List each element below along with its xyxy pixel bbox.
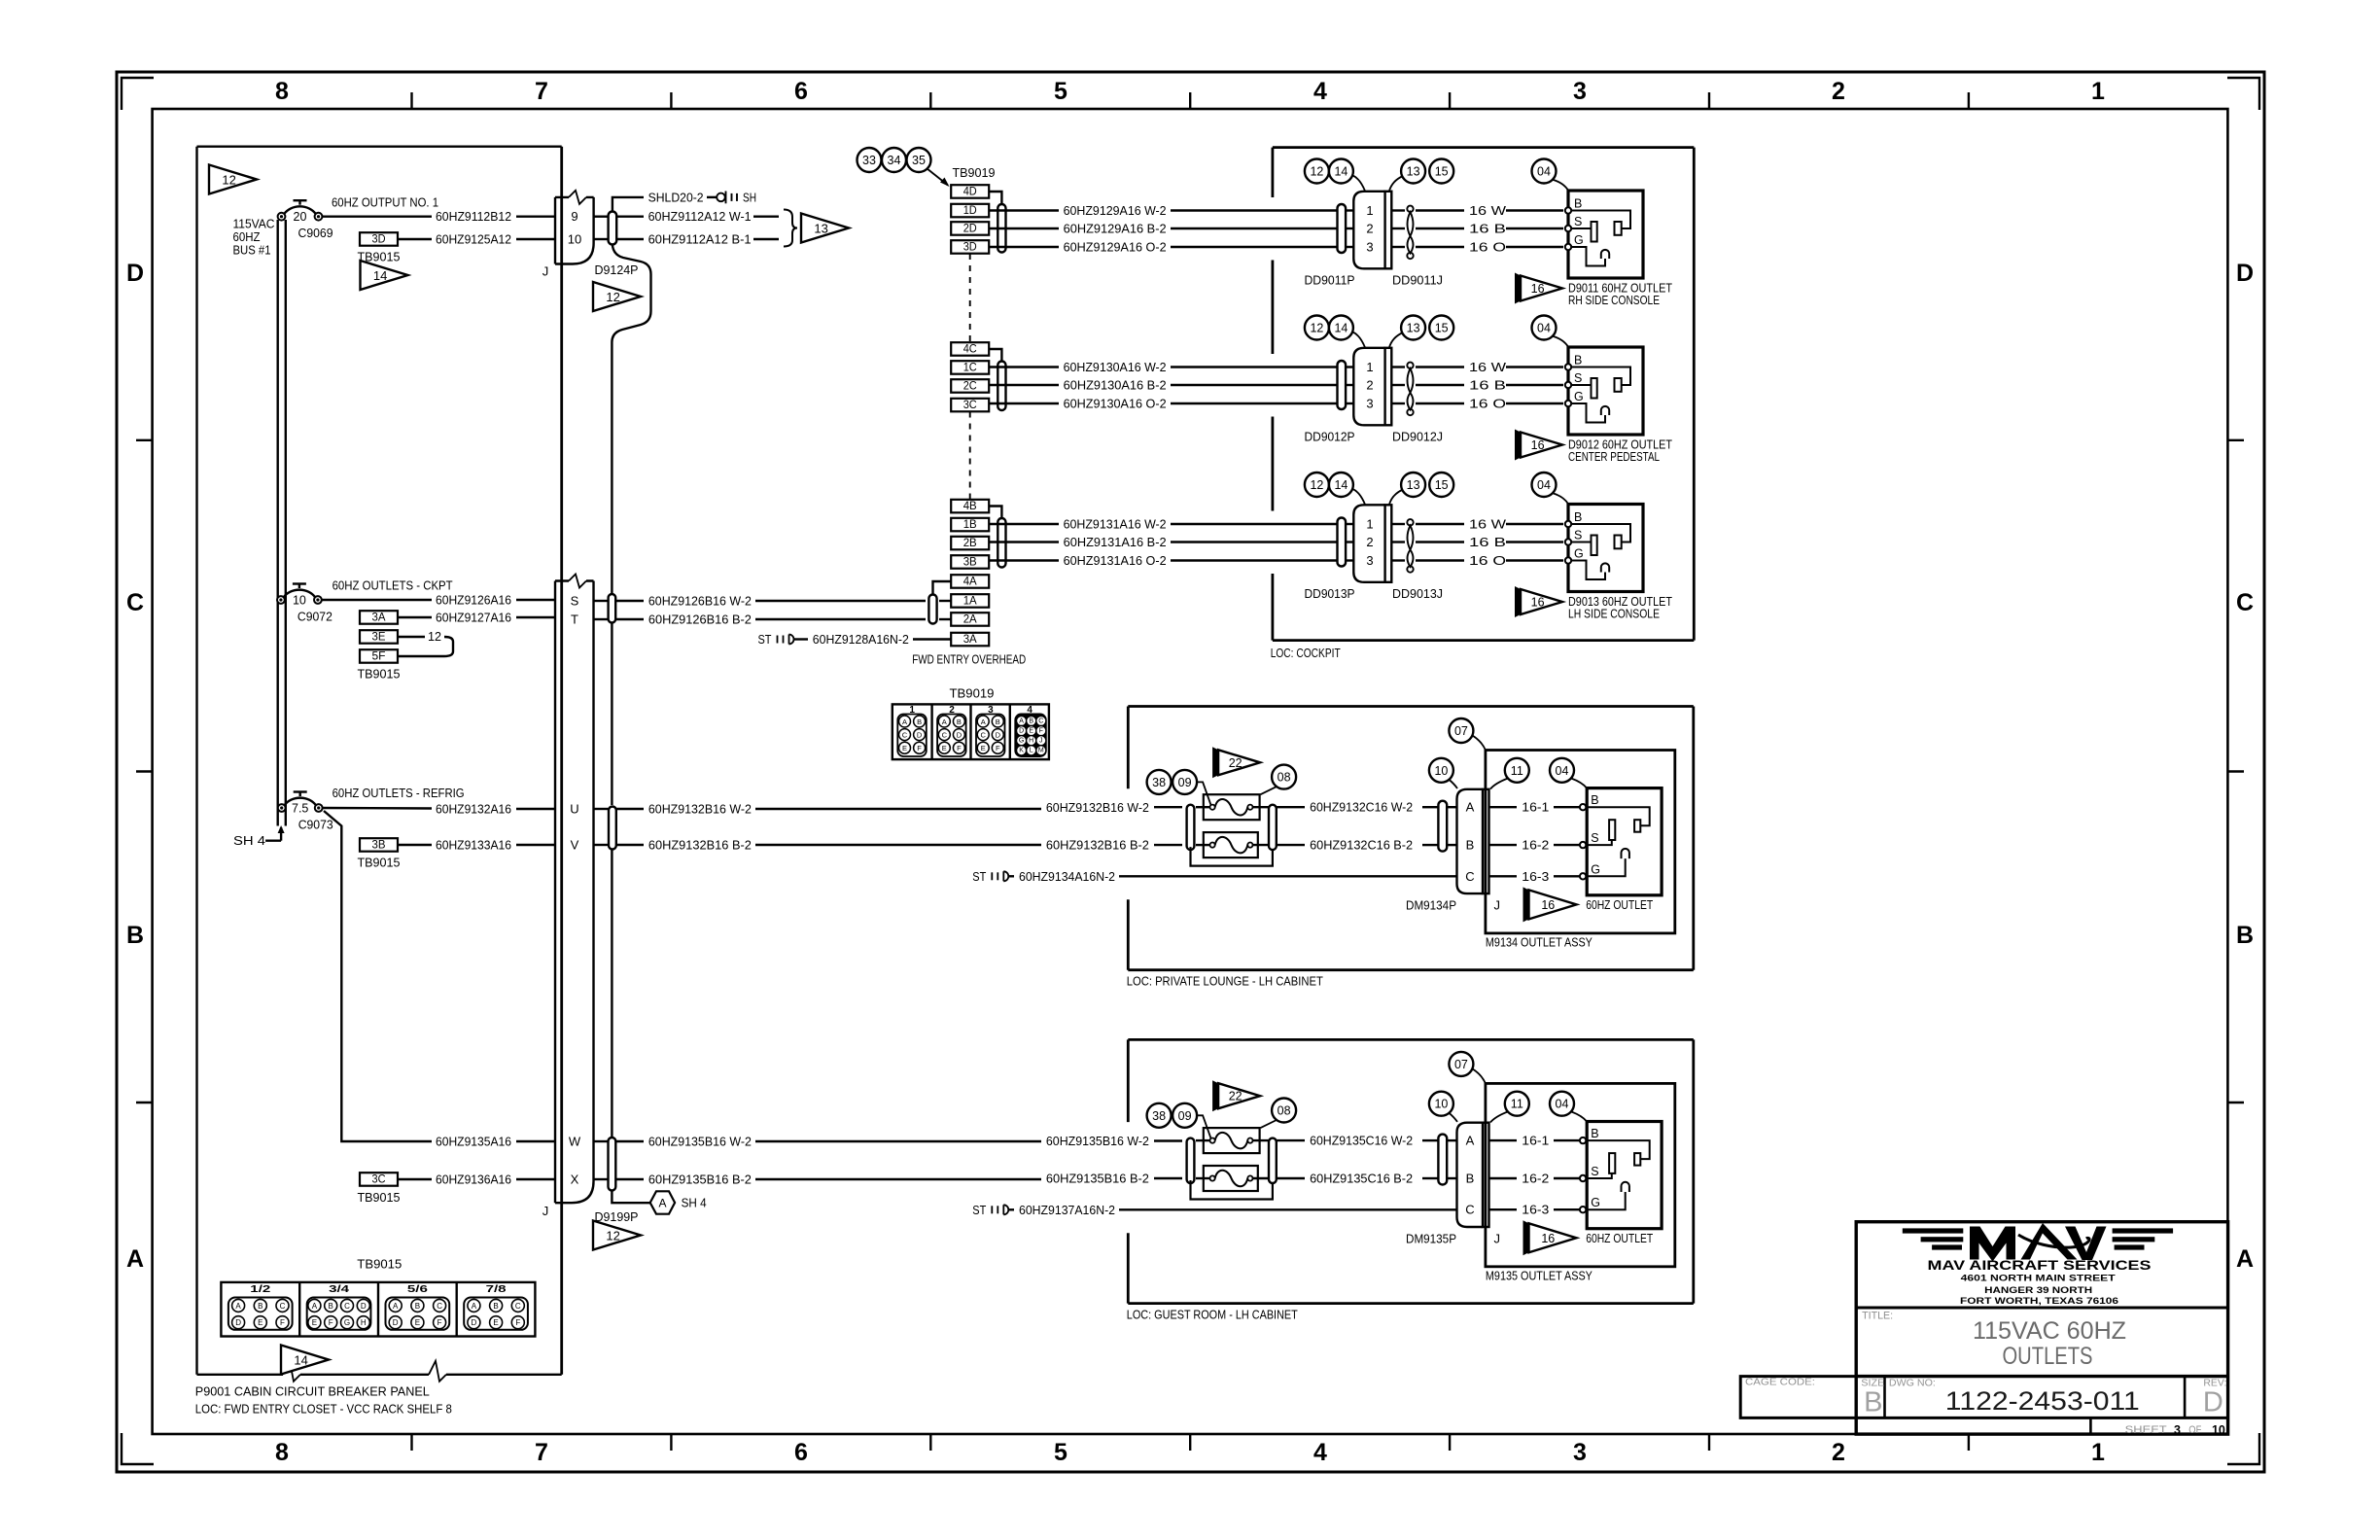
svg-text:04: 04 xyxy=(1556,764,1569,778)
svg-text:7: 7 xyxy=(535,78,548,105)
svg-text:A: A xyxy=(942,717,947,726)
circled notes 12 14 at DD900P xyxy=(1305,316,1365,348)
flag note 22 xyxy=(1212,747,1260,778)
flag note 16 and outlet label D9011 xyxy=(1515,273,1672,308)
svg-text:W: W xyxy=(569,1135,581,1149)
svg-text:E: E xyxy=(258,1318,262,1327)
svg-text:A: A xyxy=(981,717,986,726)
svg-text:3: 3 xyxy=(1366,397,1373,411)
svg-text:C: C xyxy=(280,1302,286,1311)
svg-text:G: G xyxy=(1591,862,1600,876)
splice before DD909P xyxy=(1338,204,1347,253)
svg-text:60HZ9135C16 B-2: 60HZ9135C16 B-2 xyxy=(1310,1172,1413,1186)
svg-text:7/8: 7/8 xyxy=(486,1284,507,1295)
svg-text:D: D xyxy=(2203,1387,2223,1418)
svg-text:BUS #1: BUS #1 xyxy=(233,243,271,258)
splice at TB9019 B group xyxy=(997,518,1005,568)
svg-text:1D: 1D xyxy=(963,205,977,217)
svg-text:J: J xyxy=(1493,1231,1500,1245)
svg-text:B: B xyxy=(415,1302,420,1311)
svg-text:12: 12 xyxy=(1310,322,1323,335)
wire 60HZ9132A16 from C9073 to pin U xyxy=(323,802,555,817)
wire 60HZ OUTLETS - CKPT label xyxy=(332,578,453,593)
flag note 12 at D9199P xyxy=(593,1221,641,1250)
svg-text:E: E xyxy=(942,744,947,752)
svg-text:SH 4: SH 4 xyxy=(682,1196,707,1210)
wire 16 B xyxy=(1391,222,1563,236)
svg-text:B: B xyxy=(1029,717,1033,724)
svg-text:13: 13 xyxy=(1407,165,1420,179)
svg-text:3/4: 3/4 xyxy=(329,1284,350,1295)
svg-text:B: B xyxy=(917,717,922,726)
svg-text:DM9135P: DM9135P xyxy=(1406,1231,1456,1245)
svg-text:60HZ9135A16: 60HZ9135A16 xyxy=(436,1135,511,1149)
svg-text:M: M xyxy=(1038,748,1044,754)
svg-text:12: 12 xyxy=(428,630,441,644)
svg-text:60HZ9125A12: 60HZ9125A12 xyxy=(436,232,511,247)
fuse F2 9135C16 B xyxy=(1204,1166,1258,1191)
svg-text:38: 38 xyxy=(1152,1109,1166,1123)
svg-text:C: C xyxy=(344,1302,350,1311)
circled note 10 at DM connector xyxy=(1429,758,1457,788)
svg-text:A: A xyxy=(312,1302,318,1311)
svg-text:60HZ9135C16 W-2: 60HZ9135C16 W-2 xyxy=(1310,1134,1413,1148)
svg-text:B: B xyxy=(493,1302,498,1311)
svg-text:S: S xyxy=(571,594,579,609)
svg-text:G: G xyxy=(1019,738,1024,745)
svg-text:60HZ9131A16 O-2: 60HZ9131A16 O-2 xyxy=(1064,553,1167,568)
wire 60HZ OUTLETS - REFRIG label xyxy=(332,786,465,800)
svg-text:2: 2 xyxy=(1832,1439,1845,1466)
svg-text:60HZ9129A16 O-2: 60HZ9129A16 O-2 xyxy=(1064,240,1167,255)
svg-text:C9072: C9072 xyxy=(297,611,332,624)
svg-text:TITLE:: TITLE: xyxy=(1862,1311,1893,1322)
shield wire 60HZ9128A16N-2 to TB9019 3A xyxy=(758,632,952,647)
twisted wires at DD9012J xyxy=(1407,363,1413,416)
circled note 04 at outlet D9013 xyxy=(1532,472,1569,504)
svg-text:D: D xyxy=(235,1318,241,1327)
cage code cell xyxy=(1740,1377,1856,1418)
flag note 16 and label 60HZ OUTLET xyxy=(1523,1220,1654,1255)
svg-text:1B: 1B xyxy=(963,519,977,531)
shield wire SHLD20-2 with shield termination SH xyxy=(612,190,756,211)
splice at TB9019 D group xyxy=(997,204,1005,253)
svg-text:16 W: 16 W xyxy=(1469,203,1507,218)
wire 16 O xyxy=(1391,240,1563,255)
wire 16-2 xyxy=(1489,1172,1581,1186)
svg-text:E: E xyxy=(902,744,907,752)
svg-text:D: D xyxy=(917,731,923,740)
svg-text:1: 1 xyxy=(1366,203,1373,218)
svg-text:16: 16 xyxy=(1531,438,1545,452)
svg-text:P9001 CABIN CIRCUIT BREAKER PA: P9001 CABIN CIRCUIT BREAKER PANEL xyxy=(195,1384,430,1399)
wire 60HZ9125A12 from tab 3D to pin 10 xyxy=(398,232,555,247)
outlet D9012 60HZ OUTLET xyxy=(1565,347,1643,435)
svg-text:HANGER 39 NORTH: HANGER 39 NORTH xyxy=(1984,1285,2092,1296)
svg-text:12: 12 xyxy=(222,173,235,188)
svg-text:3D: 3D xyxy=(963,242,977,254)
svg-text:15: 15 xyxy=(1435,165,1449,179)
circuit breaker C9073 7.5A xyxy=(278,792,333,832)
circled note 04 at outlet xyxy=(1550,1092,1587,1122)
terminal strip dashed continuation xyxy=(969,254,971,342)
svg-text:60HZ OUTLET: 60HZ OUTLET xyxy=(1586,897,1653,912)
svg-text:60HZ9112A12 B-1: 60HZ9112A12 B-1 xyxy=(648,232,752,247)
wire 60HZ9130A16 W-2 xyxy=(989,360,1353,374)
wire 16 B xyxy=(1391,378,1563,393)
svg-text:60HZ9126B16 W-2: 60HZ9126B16 W-2 xyxy=(648,594,752,609)
svg-text:5: 5 xyxy=(1054,78,1067,105)
circled notes 12 14 at DD901P xyxy=(1305,472,1365,505)
svg-text:7: 7 xyxy=(535,1439,548,1466)
terminal tab TB9015 3A xyxy=(360,611,398,624)
wire 60HZ9112B12 from C9069 to pin 9 xyxy=(323,209,556,224)
svg-text:15: 15 xyxy=(1435,478,1449,492)
wire 16-3 xyxy=(1489,1203,1581,1217)
fuse holder splice left xyxy=(1187,1138,1195,1183)
svg-text:E: E xyxy=(312,1318,317,1327)
svg-text:60HZ9133A16: 60HZ9133A16 xyxy=(436,838,511,853)
flag note 12 at D9124P xyxy=(593,282,641,311)
wire 60HZ9130A16 O-2 xyxy=(989,397,1353,411)
svg-text:3: 3 xyxy=(2174,1423,2181,1437)
svg-text:A: A xyxy=(235,1302,241,1311)
circled note 04 at outlet D9011 xyxy=(1532,159,1569,191)
svg-text:A: A xyxy=(126,1245,144,1273)
splice at TB9019 C group xyxy=(997,362,1005,411)
jumper wire 12 between 3E and 5F xyxy=(398,630,453,656)
wire 60HZ OUTPUT NO. 1 label xyxy=(332,195,438,210)
svg-text:4A: 4A xyxy=(963,577,977,588)
wire 60HZ9130A16 B-2 xyxy=(989,378,1353,393)
cabinet box LOC: GUEST ROOM - LH CABINET xyxy=(1128,1039,1694,1303)
svg-text:LOC: FWD ENTRY CLOSET - VCC RA: LOC: FWD ENTRY CLOSET - VCC RACK SHELF 8 xyxy=(195,1402,452,1417)
flag note 14 bottom xyxy=(281,1346,329,1375)
svg-text:G: G xyxy=(1591,1196,1600,1209)
svg-text:B: B xyxy=(1864,1387,1882,1418)
svg-text:S: S xyxy=(1574,371,1582,385)
circled note 11 at J xyxy=(1490,1092,1529,1123)
rev cell D xyxy=(2203,1377,2226,1417)
fuse F1 9135C16 W xyxy=(1204,1128,1260,1153)
svg-text:G: G xyxy=(1574,390,1584,403)
svg-text:10: 10 xyxy=(568,232,581,247)
svg-text:16-3: 16-3 xyxy=(1522,869,1549,884)
twisted wires at DD9011J xyxy=(1407,206,1413,260)
svg-text:2D: 2D xyxy=(963,224,977,235)
svg-text:F: F xyxy=(917,744,922,752)
svg-text:3: 3 xyxy=(1573,78,1587,105)
svg-text:16 B: 16 B xyxy=(1469,222,1506,236)
circled notes 33 34 35 with leader to TB9019 xyxy=(857,148,996,187)
wire 60HZ9112A12 W-1 xyxy=(594,209,779,224)
svg-text:3E: 3E xyxy=(372,632,386,644)
svg-text:H: H xyxy=(1029,738,1033,745)
svg-text:C: C xyxy=(902,731,908,740)
svg-text:F: F xyxy=(280,1318,285,1327)
svg-text:60HZ9132B16 W-2: 60HZ9132B16 W-2 xyxy=(1046,800,1149,815)
svg-text:J: J xyxy=(1493,897,1500,912)
svg-text:09: 09 xyxy=(1178,1109,1192,1123)
connector DD9011P / DD9011J xyxy=(1305,192,1444,288)
svg-text:J: J xyxy=(1039,738,1043,745)
outlet assembly inner box M9135 OUTLET ASSY xyxy=(1486,1083,1675,1282)
circled notes 38 09 xyxy=(1147,1103,1211,1138)
svg-text:07: 07 xyxy=(1454,1058,1468,1071)
svg-text:11: 11 xyxy=(1511,1098,1523,1111)
svg-text:16 W: 16 W xyxy=(1469,360,1507,374)
connector D9124P upper shell with pins 9 10 xyxy=(542,147,639,1375)
svg-text:60HZ9112B12: 60HZ9112B12 xyxy=(436,209,511,224)
flag note 22 xyxy=(1212,1080,1260,1111)
svg-text:C: C xyxy=(942,731,948,740)
svg-text:SH: SH xyxy=(743,190,756,204)
svg-text:D: D xyxy=(361,1302,367,1311)
svg-text:SHLD20-2: SHLD20-2 xyxy=(648,190,704,204)
svg-text:DWG NO:: DWG NO: xyxy=(1889,1377,1936,1388)
svg-text:DD9012P: DD9012P xyxy=(1305,430,1355,444)
splice on wires W-X xyxy=(609,1137,616,1191)
svg-text:F: F xyxy=(329,1318,333,1327)
svg-text:20: 20 xyxy=(294,210,307,224)
svg-text:B: B xyxy=(1591,793,1598,807)
shield wire 60HZ9137A16N-2 to DM9135P pin C xyxy=(972,1203,1456,1217)
svg-text:TB9019: TB9019 xyxy=(953,165,996,180)
circuit breaker C9072 10A xyxy=(277,584,332,624)
svg-text:G: G xyxy=(1574,547,1584,561)
svg-text:2: 2 xyxy=(1832,78,1845,105)
svg-text:B: B xyxy=(329,1302,333,1311)
circled note 04 at outlet D9012 xyxy=(1532,316,1569,347)
svg-text:15: 15 xyxy=(1435,322,1449,335)
svg-text:14: 14 xyxy=(1334,478,1347,492)
wire 16-1 xyxy=(1489,1134,1581,1148)
svg-text:C: C xyxy=(1465,869,1474,884)
svg-text:8: 8 xyxy=(275,1439,289,1466)
svg-text:C: C xyxy=(980,731,986,740)
svg-text:4D: 4D xyxy=(963,187,977,198)
outlet D9013 60HZ OUTLET xyxy=(1565,505,1643,592)
svg-text:13: 13 xyxy=(1407,478,1420,492)
svg-text:B: B xyxy=(2236,922,2254,949)
splice on wires S-T xyxy=(609,594,616,623)
svg-text:C: C xyxy=(1038,717,1043,724)
svg-text:3: 3 xyxy=(1573,1439,1587,1466)
svg-text:14: 14 xyxy=(1334,165,1347,179)
cable shield drain wire down to SH 4 xyxy=(612,245,650,1204)
wire 60HZ9126A16 from C9072 to pin S xyxy=(322,593,555,608)
svg-text:K: K xyxy=(1019,748,1024,754)
svg-text:60HZ9128A16N-2: 60HZ9128A16N-2 xyxy=(813,632,909,647)
fuse holder splice right and enclosure xyxy=(1191,1138,1277,1200)
wire 16 O xyxy=(1391,397,1563,411)
svg-text:13: 13 xyxy=(1407,322,1420,335)
svg-text:10: 10 xyxy=(2212,1423,2225,1437)
terminal tab TB9015 3B xyxy=(358,838,401,869)
wire 60HZ9132C16 W-2 to DM pin A xyxy=(1196,800,1457,815)
svg-text:12: 12 xyxy=(606,290,619,304)
svg-text:A: A xyxy=(393,1302,399,1311)
svg-text:M9135 OUTLET ASSY: M9135 OUTLET ASSY xyxy=(1486,1268,1592,1282)
svg-text:DD9012J: DD9012J xyxy=(1392,430,1443,444)
svg-text:10: 10 xyxy=(1434,764,1448,778)
wire 16 O xyxy=(1391,553,1563,568)
wire 60HZ9129A16 O-2 xyxy=(989,240,1353,255)
svg-text:L: L xyxy=(1030,748,1033,754)
svg-text:ST: ST xyxy=(972,870,986,884)
svg-text:60HZ9132A16: 60HZ9132A16 xyxy=(436,802,511,817)
svg-text:C: C xyxy=(2236,589,2254,616)
circled notes 13 15 at DD901J xyxy=(1389,472,1453,505)
P9001 cabin circuit breaker panel box xyxy=(197,147,562,1382)
svg-text:04: 04 xyxy=(1537,478,1551,492)
svg-text:2B: 2B xyxy=(963,538,977,549)
svg-text:T: T xyxy=(571,612,578,627)
wire 60HZ9131A16 W-2 xyxy=(989,517,1353,532)
svg-text:1A: 1A xyxy=(963,596,977,608)
P9001 panel label text xyxy=(195,1384,452,1417)
svg-text:16 O: 16 O xyxy=(1469,240,1506,255)
svg-text:C9073: C9073 xyxy=(298,819,333,832)
svg-text:B: B xyxy=(1574,510,1582,524)
splice on wires 9-10 xyxy=(609,212,617,245)
wire 60HZ9127A16 from tab 3A to pin T xyxy=(398,611,555,625)
svg-text:16: 16 xyxy=(1531,282,1545,296)
svg-text:3A: 3A xyxy=(963,634,977,646)
wire 60HZ9135B16 B-2 to guest room xyxy=(594,1172,1183,1187)
svg-text:FORT WORTH, TEXAS 76106: FORT WORTH, TEXAS 76106 xyxy=(1960,1296,2118,1307)
svg-text:60HZ9136A16: 60HZ9136A16 xyxy=(436,1172,511,1187)
svg-text:G: G xyxy=(344,1318,350,1327)
svg-text:22: 22 xyxy=(1229,756,1242,770)
svg-text:3: 3 xyxy=(1366,553,1373,568)
svg-text:X: X xyxy=(571,1172,579,1187)
svg-text:A: A xyxy=(472,1302,477,1311)
connector DD9013P / DD9013J xyxy=(1305,505,1444,601)
svg-text:6: 6 xyxy=(794,1439,808,1466)
svg-text:16-1: 16-1 xyxy=(1522,1134,1549,1148)
svg-text:E: E xyxy=(493,1318,498,1327)
svg-text:14: 14 xyxy=(1334,322,1347,335)
svg-text:V: V xyxy=(571,838,579,853)
svg-text:DM9134P: DM9134P xyxy=(1406,897,1456,912)
svg-text:DD9011P: DD9011P xyxy=(1305,273,1355,288)
svg-text:CENTER PEDESTAL: CENTER PEDESTAL xyxy=(1568,449,1660,464)
svg-text:F: F xyxy=(515,1318,520,1327)
svg-text:60HZ9130A16 O-2: 60HZ9130A16 O-2 xyxy=(1064,397,1167,411)
svg-text:H: H xyxy=(361,1318,367,1327)
svg-text:12: 12 xyxy=(1310,478,1323,492)
svg-text:10: 10 xyxy=(293,594,306,608)
svg-text:4B: 4B xyxy=(963,501,977,512)
svg-text:14: 14 xyxy=(294,1353,307,1368)
splice before DM connector xyxy=(1438,801,1447,852)
svg-text:08: 08 xyxy=(1277,1104,1291,1118)
svg-text:C: C xyxy=(126,589,144,616)
svg-text:07: 07 xyxy=(1454,724,1468,738)
svg-text:B: B xyxy=(1574,197,1582,211)
circled notes 13 15 at DD909J xyxy=(1389,159,1453,192)
svg-text:M9134 OUTLET ASSY: M9134 OUTLET ASSY xyxy=(1486,935,1592,950)
wire 60HZ9129A16 B-2 xyxy=(989,222,1353,236)
svg-text:8: 8 xyxy=(275,78,289,105)
terminal tabs TB9019 4D 1D 2D 3D xyxy=(951,185,1040,254)
svg-text:3C: 3C xyxy=(963,400,977,411)
svg-text:14: 14 xyxy=(373,268,387,283)
off sheet hexagon A SH 4 xyxy=(650,1191,707,1213)
svg-text:9: 9 xyxy=(571,209,577,224)
svg-text:3B: 3B xyxy=(372,840,386,852)
svg-text:F: F xyxy=(1039,728,1043,735)
svg-text:3B: 3B xyxy=(963,557,977,569)
svg-text:2A: 2A xyxy=(963,614,977,626)
svg-text:3C: 3C xyxy=(372,1174,386,1186)
wire 60HZ9129A16 W-2 xyxy=(989,203,1353,218)
svg-text:C: C xyxy=(437,1302,442,1311)
svg-text:LOC: PRIVATE LOUNGE - LH CABIN: LOC: PRIVATE LOUNGE - LH CABINET xyxy=(1127,974,1323,989)
wire 16 W xyxy=(1391,517,1563,532)
svg-text:60HZ9132C16 B-2: 60HZ9132C16 B-2 xyxy=(1310,838,1413,853)
location label LOC: COCKPIT xyxy=(1271,646,1341,660)
svg-text:3: 3 xyxy=(1366,240,1373,255)
circled notes 38 09 xyxy=(1147,770,1211,805)
svg-text:OUTLETS: OUTLETS xyxy=(2003,1343,2093,1370)
svg-text:5/6: 5/6 xyxy=(407,1284,429,1295)
svg-text:OF: OF xyxy=(2188,1424,2201,1436)
svg-text:D: D xyxy=(126,260,144,287)
location label FWD ENTRY OVERHEAD xyxy=(912,652,1026,667)
title text 115VAC 60HZ OUTLETS xyxy=(1862,1311,2126,1371)
svg-text:LOC: COCKPIT: LOC: COCKPIT xyxy=(1271,646,1341,660)
svg-text:U: U xyxy=(570,802,578,817)
svg-text:S: S xyxy=(1591,1165,1598,1178)
svg-text:E: E xyxy=(1029,728,1033,735)
svg-text:60HZ9135B16 W-2: 60HZ9135B16 W-2 xyxy=(648,1135,752,1149)
svg-text:1: 1 xyxy=(1366,517,1373,532)
svg-text:10: 10 xyxy=(1434,1098,1448,1111)
svg-text:2: 2 xyxy=(1366,535,1373,549)
flag note 16 and outlet label D9013 xyxy=(1515,586,1672,621)
svg-text:60HZ9129A16 W-2: 60HZ9129A16 W-2 xyxy=(1064,203,1167,218)
sheet 3 of 10 xyxy=(2125,1423,2225,1437)
circled notes 12 14 at DD909P xyxy=(1305,159,1365,192)
connector D9199P lower shell with pins S T U V W X xyxy=(542,575,639,1225)
svg-text:DD9013P: DD9013P xyxy=(1305,586,1355,601)
svg-text:60HZ9137A16N-2: 60HZ9137A16N-2 xyxy=(1019,1203,1115,1217)
svg-text:B: B xyxy=(1466,838,1475,853)
fuse F1 9132C16 W xyxy=(1204,794,1260,820)
terminal strip dashed continuation xyxy=(969,412,971,501)
svg-text:60HZ9135B16 B-2: 60HZ9135B16 B-2 xyxy=(1046,1172,1149,1186)
svg-text:11: 11 xyxy=(1511,764,1523,778)
svg-text:TB9015: TB9015 xyxy=(357,1257,402,1272)
svg-text:04: 04 xyxy=(1537,165,1551,179)
svg-text:09: 09 xyxy=(1178,776,1192,789)
svg-text:60HZ9132C16 W-2: 60HZ9132C16 W-2 xyxy=(1310,800,1413,815)
wire 16 W xyxy=(1391,203,1563,218)
svg-text:60HZ9135B16 B-2: 60HZ9135B16 B-2 xyxy=(648,1172,752,1187)
circled note 11 at J xyxy=(1490,758,1529,789)
svg-text:1/2: 1/2 xyxy=(250,1284,271,1295)
svg-text:D: D xyxy=(472,1318,477,1327)
svg-text:B: B xyxy=(957,717,962,726)
svg-text:1: 1 xyxy=(2091,78,2105,105)
svg-text:35: 35 xyxy=(912,154,926,167)
circled note 08 xyxy=(1261,1099,1297,1129)
svg-text:C9069: C9069 xyxy=(298,227,333,240)
outlet 60HZ OUTLET in M9134 xyxy=(1580,788,1662,895)
svg-text:S: S xyxy=(1574,529,1582,542)
